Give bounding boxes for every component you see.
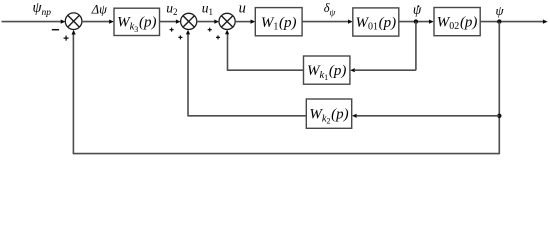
block Wk2(p) [306, 99, 351, 128]
svg-text:W1(p): W1(p) [261, 15, 297, 33]
label plus bottom at S3 [216, 35, 220, 39]
wire: S3 to W1 [235, 20, 255, 24]
wire: W01 to W02 [399, 20, 434, 24]
svg-text:ψ: ψ [496, 3, 505, 18]
svg-text:Δψ: Δψ [91, 2, 107, 16]
label plus at S1 [64, 36, 69, 41]
wire: Wk3 to S2 [160, 20, 181, 24]
node Wk2 branch dot [497, 114, 501, 118]
label plus left at S2 [170, 28, 174, 32]
block Wk1(p) [304, 56, 350, 84]
node psi-dot junction dot [414, 19, 418, 23]
summing junction S2 [181, 13, 197, 29]
label psi-dot [413, 2, 422, 17]
summing junction S1 [65, 13, 82, 30]
svg-text:u: u [239, 0, 246, 16]
summing junction S3 [219, 13, 235, 29]
wire: Wk2 left to S2 [186, 30, 306, 117]
svg-text:u1: u1 [202, 0, 213, 16]
block Wk3(p) [114, 8, 160, 35]
wire: Wk1 left to S3 [225, 30, 304, 71]
node psi junction dot [497, 19, 501, 23]
label minus at S1 [52, 29, 59, 31]
wire: psi-dot node down to Wk1 row [415, 22, 417, 71]
block W02(p) [434, 8, 480, 36]
wire: S2 to S3 [197, 20, 219, 24]
svg-text:δψ: δψ [324, 1, 336, 18]
svg-text:ψ: ψ [413, 2, 422, 17]
wire: outer feedback bottom [72, 30, 500, 155]
label plus left at S3 [208, 28, 212, 32]
wire: W02 to output arrow [480, 20, 547, 24]
wire: into Wk2 right side [352, 114, 499, 118]
block W1(p) [255, 8, 302, 36]
svg-text:u2: u2 [166, 0, 177, 16]
wire: W1 to W01 [302, 20, 353, 24]
block W01(p) [353, 8, 399, 36]
wire: into Wk1 right side [350, 68, 416, 72]
wire: psi node down right side [498, 22, 500, 155]
svg-text:ψпр: ψпр [33, 0, 52, 18]
wire: S1 to Wk3 [82, 20, 114, 24]
label plus bottom at S2 [178, 35, 182, 39]
wire: input psi_pr line [2, 20, 66, 24]
